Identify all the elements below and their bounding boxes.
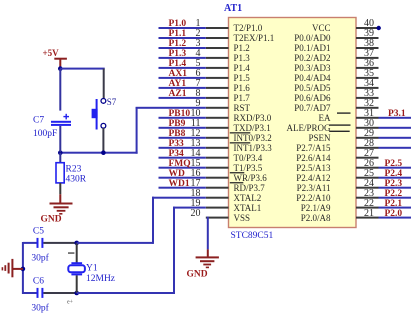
IC pin name P0.0/AD0 (pin 39) <box>294 33 331 43</box>
pin number 17 <box>191 178 201 189</box>
svg-text:P1.6: P1.6 <box>234 83 251 93</box>
wire net P1.1 (pin 2) <box>159 37 206 39</box>
svg-text:T1/P3.5: T1/P3.5 <box>234 163 263 173</box>
overbar PSEN <box>329 131 350 132</box>
pin 38 stub <box>356 47 379 49</box>
svg-text:S7: S7 <box>107 97 117 107</box>
wire net pin 21 to right edge <box>379 217 411 219</box>
pin number 21 <box>364 208 374 219</box>
wire C7 bottom lead <box>59 126 61 152</box>
IC pin name RD/P3.7 (pin 17) <box>234 183 266 193</box>
IC pin name P2.7/A15 (pin 28) <box>296 143 331 153</box>
wire net PB8 (pin 12) <box>159 137 206 139</box>
capacitor C7 plates <box>51 121 71 126</box>
svg-text:RST: RST <box>234 103 251 113</box>
IC pin name P2.4/A12 (pin 25) <box>296 173 330 183</box>
IC pin name P2.6/A14 (pin 27) <box>296 153 331 163</box>
pin 9 stub <box>206 107 229 109</box>
svg-text:P0.3/AD3: P0.3/AD3 <box>294 63 331 73</box>
pin number 8 <box>196 88 201 99</box>
svg-text:e+: e+ <box>67 300 74 306</box>
svg-text:WD1: WD1 <box>169 179 190 189</box>
svg-text:EA: EA <box>319 113 331 123</box>
wire R23 to ground <box>59 183 61 204</box>
pin number 32 <box>364 98 374 109</box>
pin number 9 <box>196 98 201 109</box>
crystal designator Y1 <box>86 264 98 274</box>
wire net pin 31 to right edge <box>379 117 411 119</box>
pin number 3 <box>196 38 201 49</box>
svg-text:C5: C5 <box>33 227 44 237</box>
wire net FMQ (pin 15) <box>159 167 206 169</box>
IC pin name T2EX/P1.1 (pin 2) <box>234 33 275 43</box>
pin 18 stub <box>206 197 229 199</box>
svg-text:WR/P3.6: WR/P3.6 <box>234 173 268 183</box>
ground label GND <box>41 215 62 225</box>
pin number 34 <box>364 78 374 89</box>
switch designator S7 <box>107 97 117 107</box>
svg-text:P0.0/AD0: P0.0/AD0 <box>294 33 331 43</box>
pin 2 stub <box>206 37 229 39</box>
IC pin name P0.4/AD4 (pin 35) <box>294 73 331 83</box>
svg-text:P2.4: P2.4 <box>385 169 403 179</box>
pin 29 stub <box>356 137 379 139</box>
svg-text:P2.0/A8: P2.0/A8 <box>301 213 331 223</box>
svg-text:P1.3: P1.3 <box>234 53 251 63</box>
wire net P1.4 (pin 5) <box>159 67 206 69</box>
IC pin name P0.7/AD7 (pin 32) <box>294 103 331 113</box>
pin number 39 <box>364 28 374 39</box>
svg-text:R23: R23 <box>66 165 82 175</box>
svg-text:P34: P34 <box>169 149 185 159</box>
pin 37 stub <box>356 57 379 59</box>
overbar RD <box>230 182 244 183</box>
wire net pin 29 to right edge <box>379 137 411 139</box>
pin 22 stub <box>356 207 379 209</box>
IC pin name P0.5/AD5 (pin 34) <box>294 83 331 93</box>
svg-text:T2EX/P1.1: T2EX/P1.1 <box>234 33 275 43</box>
pin number 35 <box>364 68 374 79</box>
net label P1.4 <box>169 59 187 69</box>
node dot C7/R23 junction <box>58 150 63 155</box>
pin 23 stub <box>356 197 379 199</box>
pin number 40 <box>364 18 374 29</box>
svg-text:P0.1/AD1: P0.1/AD1 <box>294 43 330 53</box>
svg-text:RD/P3.7: RD/P3.7 <box>234 183 266 193</box>
overbar INT0 <box>230 132 251 133</box>
IC pin name P2.3/A11 (pin 24) <box>297 183 331 193</box>
side ground symbol <box>2 259 23 277</box>
IC pin name P2.2/A10 (pin 23) <box>296 193 331 203</box>
pin 17 stub <box>206 187 229 189</box>
wire net pin 25 to right edge <box>379 177 411 179</box>
svg-text:PB8: PB8 <box>169 129 186 139</box>
wire C6 left lead <box>23 292 37 294</box>
svg-text:AT1: AT1 <box>224 3 242 14</box>
svg-text:AY1: AY1 <box>169 79 187 89</box>
pin number 29 <box>364 128 374 139</box>
svg-text:P1.2: P1.2 <box>234 43 250 53</box>
wire net P1.0 (pin 1) <box>159 27 206 29</box>
power +5V symbol <box>54 58 67 69</box>
svg-text:P0.4/AD4: P0.4/AD4 <box>294 73 331 83</box>
pin number 10 <box>191 108 201 119</box>
IC pin name P2.5/A13 (pin 26) <box>296 163 331 173</box>
pin number 22 <box>364 198 374 209</box>
pin 20 stub <box>206 217 229 219</box>
wire net AZ1 (pin 8) <box>159 97 206 99</box>
svg-text:20: 20 <box>191 208 201 219</box>
pin number 13 <box>191 138 201 149</box>
wire net pin 30 to right edge <box>379 127 411 129</box>
pin number 23 <box>364 188 374 199</box>
IC pin name T1/P3.5 (pin 15) <box>234 163 263 173</box>
stray minus mark <box>68 252 74 254</box>
capacitor value 100pF <box>33 129 57 139</box>
svg-text:30pf: 30pf <box>31 303 49 314</box>
IC pin name RXD/P3.0 (pin 10) <box>234 113 272 123</box>
pin number 2 <box>196 28 201 39</box>
pin 31 stub <box>356 117 379 119</box>
capacitor designator C6 <box>33 277 44 287</box>
overbar WR <box>230 172 245 173</box>
svg-text:P2.2/A10: P2.2/A10 <box>296 193 331 203</box>
svg-text:P0.7/AD7: P0.7/AD7 <box>294 103 331 113</box>
wire net P1.3 (pin 4) <box>159 57 206 59</box>
capacitor value 30pf (C5) <box>31 253 49 264</box>
IC pin name TXD/P3.1 (pin 11) <box>234 123 271 133</box>
pin number 6 <box>196 68 201 79</box>
pin 13 stub <box>206 147 229 149</box>
pin 4 stub <box>206 57 229 59</box>
wire VSS pin 20 to ground <box>207 217 209 250</box>
pin number 24 <box>364 178 374 189</box>
pin number 37 <box>364 48 374 59</box>
svg-text:P1.4: P1.4 <box>234 63 251 73</box>
resistor designator R23 <box>66 165 82 175</box>
svg-text:P2.2: P2.2 <box>385 189 403 199</box>
svg-text:INT1/P3.3: INT1/P3.3 <box>234 143 273 153</box>
IC pin name XTAL2 (pin 18) <box>234 193 262 203</box>
IC pin name INT0/P3.2 (pin 12) <box>234 133 272 143</box>
pin 8 stub <box>206 97 229 99</box>
svg-text:RXD/P3.0: RXD/P3.0 <box>234 113 272 123</box>
wire reset node vertical to pin 9 <box>136 107 138 154</box>
net label P1.0 <box>169 19 187 29</box>
pin 32 stub <box>356 107 379 109</box>
pin number 38 <box>364 38 374 49</box>
IC pin name INT1/P3.3 (pin 13) <box>234 143 273 153</box>
net label P1.1 <box>169 29 187 39</box>
net label FMQ <box>169 159 191 169</box>
wire left vertical (C5/C6 common) <box>22 242 24 294</box>
wire node to R23 <box>59 153 61 163</box>
svg-text:P2.5/A13: P2.5/A13 <box>296 163 331 173</box>
wire +5V junction to switch branch <box>60 68 104 70</box>
net label PB10 <box>169 109 191 119</box>
pin number 27 <box>364 148 374 159</box>
pin 30 stub <box>356 127 379 129</box>
svg-text:P0.6/AD6: P0.6/AD6 <box>294 93 331 103</box>
wire net PB10 (pin 10) <box>159 117 206 119</box>
IC pin name P1.2 (pin 3) <box>234 43 250 53</box>
wire net P34 (pin 14) <box>159 157 206 159</box>
node dot crystal bottom <box>74 291 79 296</box>
pin 7 stub <box>206 87 229 89</box>
svg-text:XTAL1: XTAL1 <box>234 203 262 213</box>
IC pin name EA (pin 31) <box>319 113 331 123</box>
svg-text:P2.6/A14: P2.6/A14 <box>296 153 331 163</box>
IC pin name P0.6/AD6 (pin 33) <box>294 93 331 103</box>
pin number 25 <box>364 168 374 179</box>
node dot side ground junction <box>21 267 26 272</box>
stray mark e+ <box>67 300 74 306</box>
net label AZ1 <box>169 89 187 99</box>
ground label GND (VSS) <box>187 270 208 280</box>
wire crystal top to pin 18 <box>77 197 206 244</box>
overbar INT1 <box>230 142 251 143</box>
pin 27 stub <box>356 157 379 159</box>
svg-text:P2.7/A15: P2.7/A15 <box>296 143 331 153</box>
svg-text:P1.3: P1.3 <box>169 49 187 59</box>
resistor R23 body <box>56 163 64 183</box>
svg-text:P1.2: P1.2 <box>169 39 187 49</box>
svg-text:P2.4/A12: P2.4/A12 <box>296 173 330 183</box>
pin number 11 <box>191 118 201 129</box>
pin number 14 <box>191 148 201 159</box>
net label P2.0 <box>385 209 403 219</box>
svg-text:FMQ: FMQ <box>169 159 191 169</box>
net label P2.1 <box>385 199 403 209</box>
pin 34 stub <box>356 87 379 89</box>
IC pin name P1.3 (pin 4) <box>234 53 251 63</box>
wire switch branch vertical <box>103 69 105 100</box>
net label P1.3 <box>169 49 187 59</box>
pin number 16 <box>191 168 201 179</box>
overbar PROG <box>329 124 350 125</box>
wire net pin 24 to right edge <box>379 187 411 189</box>
crystal Y1 body <box>68 262 85 275</box>
capacitor designator C7 <box>33 116 44 126</box>
pin 33 stub <box>356 97 379 99</box>
IC value label STC89C51 <box>231 231 274 241</box>
pin 36 stub <box>356 67 379 69</box>
svg-text:XTAL2: XTAL2 <box>234 193 262 203</box>
pin number 4 <box>196 48 201 59</box>
net label P34 <box>169 149 185 159</box>
svg-text:30pf: 30pf <box>31 253 49 264</box>
pin number 36 <box>364 58 374 69</box>
pin 25 stub <box>356 177 379 179</box>
pin 24 stub <box>356 187 379 189</box>
svg-text:INT0/P3.2: INT0/P3.2 <box>234 133 272 143</box>
svg-text:GND: GND <box>187 270 208 280</box>
pin 1 stub <box>206 27 229 29</box>
switch S7 bottom terminal <box>101 123 106 128</box>
wire net P1.2 (pin 3) <box>159 47 206 49</box>
svg-text:T0/P3.4: T0/P3.4 <box>234 153 263 163</box>
svg-text:P2.1: P2.1 <box>385 199 403 209</box>
wire net WD1 (pin 17) <box>159 187 206 189</box>
IC pin name ALE/PROG (pin 30) <box>286 123 331 133</box>
pin number 30 <box>364 118 374 129</box>
wire net AX1 (pin 6) <box>159 77 206 79</box>
capacitor C7 polarity + <box>63 114 69 120</box>
IC pin name VSS (pin 20) <box>234 213 251 223</box>
wire net PB9 (pin 11) <box>159 127 206 129</box>
IC pin name P1.4 (pin 5) <box>234 63 251 73</box>
svg-text:VSS: VSS <box>234 213 251 223</box>
net label P33 <box>169 139 185 149</box>
svg-text:VCC: VCC <box>312 23 331 33</box>
node dot crystal top <box>74 241 79 246</box>
IC pin name VCC (pin 40) <box>312 23 331 33</box>
svg-text:P2.5: P2.5 <box>385 159 403 169</box>
IC pin name P0.1/AD1 (pin 38) <box>294 43 330 53</box>
crystal value 12MHz <box>86 274 115 284</box>
net label WD <box>169 169 186 179</box>
switch S7 top terminal <box>101 99 106 104</box>
IC pin name XTAL1 (pin 19) <box>234 203 262 213</box>
svg-text:TXD/P3.1: TXD/P3.1 <box>234 123 271 133</box>
wire C6 right lead <box>43 292 76 294</box>
IC pin name RST (pin 9) <box>234 103 251 113</box>
svg-text:P0.5/AD5: P0.5/AD5 <box>294 83 331 93</box>
wire crystal bottom lead <box>76 275 78 293</box>
pin 5 stub <box>206 67 229 69</box>
svg-text:P1.4: P1.4 <box>169 59 187 69</box>
IC pin name PSEN (pin 29) <box>308 133 331 143</box>
wire reset node horizontal <box>60 152 137 154</box>
capacitor C5 plates <box>37 238 44 248</box>
ground stem VSS <box>207 249 209 257</box>
pin 11 stub <box>206 127 229 129</box>
svg-text:+5V: +5V <box>43 48 60 58</box>
IC pin name P1.7 (pin 8) <box>234 93 251 103</box>
wire net P33 (pin 13) <box>159 147 206 149</box>
svg-text:100pF: 100pF <box>33 129 57 139</box>
wire crystal top lead <box>76 243 78 263</box>
pin 14 stub <box>206 157 229 159</box>
svg-text:430R: 430R <box>66 175 87 185</box>
IC pin name P0.2/AD2 (pin 37) <box>294 53 330 63</box>
ground symbol VSS <box>196 256 219 268</box>
svg-text:P2.3/A11: P2.3/A11 <box>297 183 331 193</box>
wire net AY1 (pin 7) <box>159 87 206 89</box>
svg-text:AZ1: AZ1 <box>169 89 187 99</box>
wire net pin 23 to right edge <box>379 197 411 199</box>
svg-text:P2.3: P2.3 <box>385 179 403 189</box>
pin 21 stub <box>356 217 379 219</box>
IC pin name T0/P3.4 (pin 14) <box>234 153 263 163</box>
pin number 20 <box>191 208 201 219</box>
wire switch bottom to node <box>102 128 104 153</box>
pin 26 stub <box>356 167 379 169</box>
pin 39 stub <box>356 37 379 39</box>
svg-text:GND: GND <box>41 215 62 225</box>
wire net pin 28 to right edge <box>379 147 411 149</box>
svg-text:21: 21 <box>364 208 374 219</box>
wire C5 right lead <box>43 242 76 244</box>
svg-text:P1.1: P1.1 <box>169 29 187 39</box>
wire junction down to C7 <box>59 69 61 111</box>
svg-text:P33: P33 <box>169 139 185 149</box>
pin number 1 <box>196 18 201 29</box>
wire net WD (pin 16) <box>159 177 206 179</box>
svg-text:Y1: Y1 <box>86 264 98 274</box>
ground symbol below R23 <box>50 203 73 215</box>
pin 6 stub <box>206 77 229 79</box>
IC pin name T2/P1.0 (pin 1) <box>234 23 263 33</box>
net label P2.5 <box>385 159 403 169</box>
svg-text:P1.7: P1.7 <box>234 93 251 103</box>
svg-text:C7: C7 <box>33 116 44 126</box>
pin number 19 <box>191 198 201 209</box>
net label PB9 <box>169 119 186 129</box>
net label P1.2 <box>169 39 187 49</box>
svg-text:P1.5: P1.5 <box>234 73 251 83</box>
pin 40 stub <box>356 27 379 29</box>
pin number 18 <box>191 188 201 199</box>
capacitor C6 plates <box>37 288 44 298</box>
node dot reset top junction <box>58 66 63 71</box>
net label P2.3 <box>385 179 403 189</box>
svg-text:ALE/PROG: ALE/PROG <box>286 123 331 133</box>
svg-text:P0.2/AD2: P0.2/AD2 <box>294 53 330 63</box>
power label +5V <box>43 48 60 58</box>
pin 35 stub <box>356 77 379 79</box>
pin 10 stub <box>206 117 229 119</box>
pin 15 stub <box>206 167 229 169</box>
svg-text:T2/P1.0: T2/P1.0 <box>234 23 263 33</box>
pin number 33 <box>364 88 374 99</box>
net label P2.4 <box>385 169 403 179</box>
capacitor value 30pf (C6) <box>31 303 49 314</box>
net label P2.2 <box>385 189 403 199</box>
capacitor designator C5 <box>33 227 44 237</box>
IC pin name WR/P3.6 (pin 16) <box>234 173 268 183</box>
svg-text:PB10: PB10 <box>169 109 191 119</box>
svg-text:C6: C6 <box>33 277 44 287</box>
pin number 26 <box>364 158 374 169</box>
pin number 15 <box>191 158 201 169</box>
switch S7 actuator <box>92 99 98 130</box>
pin 3 stub <box>206 47 229 49</box>
overbar EA <box>337 112 351 113</box>
pin number 7 <box>196 78 201 89</box>
IC pin name P0.3/AD3 (pin 36) <box>294 63 331 73</box>
IC pin name P1.5 (pin 6) <box>234 73 251 83</box>
IC pin name P1.6 (pin 7) <box>234 83 251 93</box>
svg-text:STC89C51: STC89C51 <box>231 231 274 241</box>
net label PB8 <box>169 129 186 139</box>
IC AT1 STC89C51 body <box>229 18 357 228</box>
IC designator AT1 <box>224 3 242 14</box>
pin number 5 <box>196 58 201 69</box>
svg-text:PB9: PB9 <box>169 119 186 129</box>
svg-text:P2.0: P2.0 <box>385 209 403 219</box>
pin 28 stub <box>356 147 379 149</box>
IC pin name P2.1/A9 (pin 22) <box>301 203 331 213</box>
pin 16 stub <box>206 177 229 179</box>
net label AY1 <box>169 79 187 89</box>
wire C5 left lead <box>23 242 37 244</box>
svg-text:P2.1/A9: P2.1/A9 <box>301 203 331 213</box>
pin 19 stub <box>206 207 229 209</box>
svg-text:P1.0: P1.0 <box>169 19 187 29</box>
net label WD1 <box>169 179 190 189</box>
pin number 31 <box>364 108 374 119</box>
